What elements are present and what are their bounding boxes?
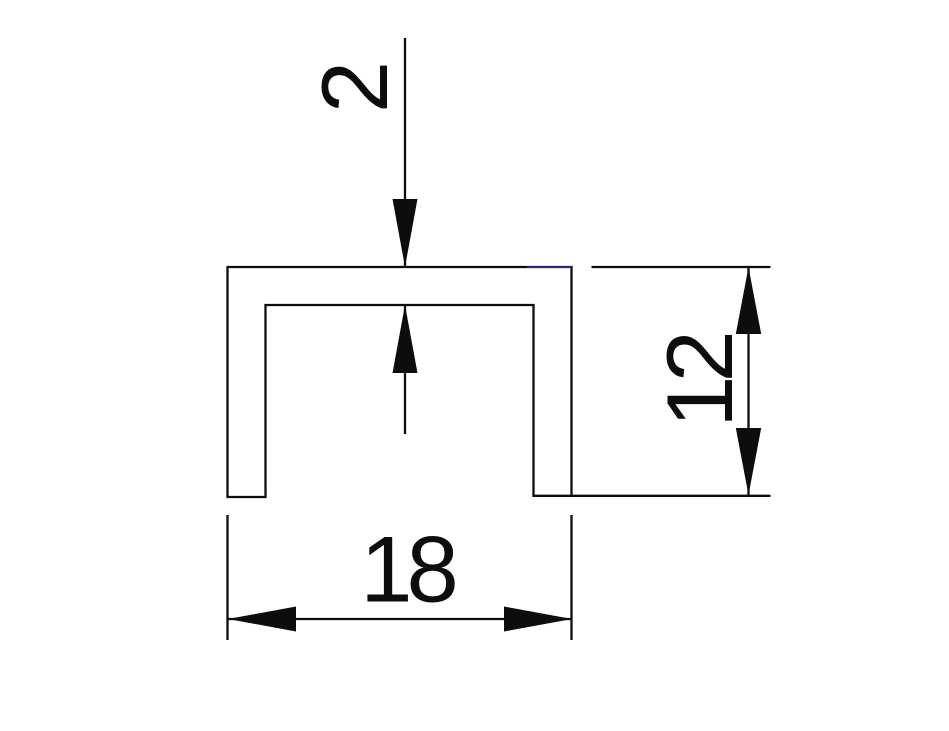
svg-text:12: 12 bbox=[647, 335, 752, 428]
svg-text:18: 18 bbox=[360, 517, 455, 622]
svg-text:2: 2 bbox=[302, 61, 407, 113]
